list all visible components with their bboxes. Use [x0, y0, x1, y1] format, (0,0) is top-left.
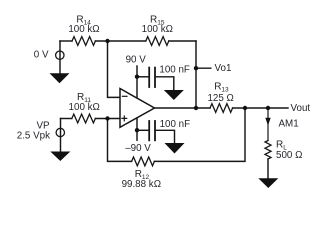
svg-text:Vout: Vout [291, 103, 311, 114]
op-amp plus mark [122, 116, 127, 121]
wire top cap right to ground [156, 77, 174, 90]
ground RL [258, 178, 278, 188]
wire AM1 branch [267, 108, 269, 141]
wire RL to ground [267, 159, 269, 178]
svg-text:100 kΩ: 100 kΩ [68, 24, 99, 35]
wire Vo1 rail [195, 41, 197, 108]
wire inverting feedback drop [108, 41, 121, 97]
op-amp minus mark [122, 95, 127, 97]
voltage source VG1 0 V [56, 51, 64, 59]
wire 90V stub [136, 66, 138, 98]
svg-text:R13: R13 [214, 82, 229, 94]
svg-text:100 nF: 100 nF [160, 119, 191, 130]
node R13 feedback [243, 106, 247, 110]
wire noninverting down leg [108, 119, 132, 162]
wire output row to Vout [233, 107, 288, 109]
ground top cap [164, 90, 184, 100]
svg-text:99.88 kΩ: 99.88 kΩ [122, 179, 161, 190]
ground bottom cap [165, 143, 185, 154]
resistor R12 [132, 157, 155, 166]
svg-text:100 kΩ: 100 kΩ [142, 24, 173, 35]
svg-text:–90 V: –90 V [125, 143, 151, 154]
wire VP source stem [60, 119, 62, 152]
node output-feedback [194, 106, 198, 110]
op-amp U1 [120, 89, 155, 128]
node junction R14-R15 [105, 39, 109, 43]
svg-text:0 V: 0 V [34, 50, 49, 61]
wire op-amp output [155, 107, 211, 109]
wire top row right [169, 40, 196, 42]
wire bottom feedback right [154, 108, 245, 161]
wire top cap left [137, 76, 148, 78]
capacitor C2 plates [149, 121, 155, 140]
svg-text:90 V: 90 V [126, 55, 147, 66]
svg-text:2.5 Vpk: 2.5 Vpk [17, 131, 50, 142]
voltage source VP 2.5 Vpk [56, 128, 64, 136]
wire bottom cap right to ground [156, 130, 175, 143]
resistor R13 [210, 104, 233, 113]
node Vo1 [194, 66, 198, 70]
wire VP row left [61, 118, 72, 120]
capacitor C1 plates [149, 68, 155, 87]
resistor R11 [72, 114, 96, 123]
node 90V rail [135, 75, 139, 79]
wire -90V stub [136, 118, 138, 140]
wire VP row right to op-amp [95, 118, 120, 120]
svg-text:Vo1: Vo1 [215, 63, 232, 74]
resistor R14 [72, 37, 95, 46]
svg-text:AM1: AM1 [279, 118, 299, 129]
resistor RL [265, 141, 271, 160]
svg-text:100 nF: 100 nF [159, 64, 190, 75]
svg-text:100 kΩ: 100 kΩ [69, 102, 100, 113]
node -90V rail [135, 128, 139, 132]
ground VP source [50, 152, 70, 162]
wire top row left [60, 40, 72, 42]
wire bottom cap left [137, 129, 148, 131]
wire top row middle [95, 40, 145, 42]
svg-text:500 Ω: 500 Ω [276, 150, 302, 161]
node junction R11 plus input [105, 116, 109, 120]
wire source VG1 stem [59, 41, 61, 74]
node Vout-RL [266, 106, 270, 110]
ground 0V source [50, 73, 70, 83]
svg-text:125 Ω: 125 Ω [207, 93, 233, 104]
wire Vo1 label stub [196, 67, 211, 69]
resistor R15 [146, 37, 169, 46]
ammeter AM1 arrow [265, 118, 270, 126]
